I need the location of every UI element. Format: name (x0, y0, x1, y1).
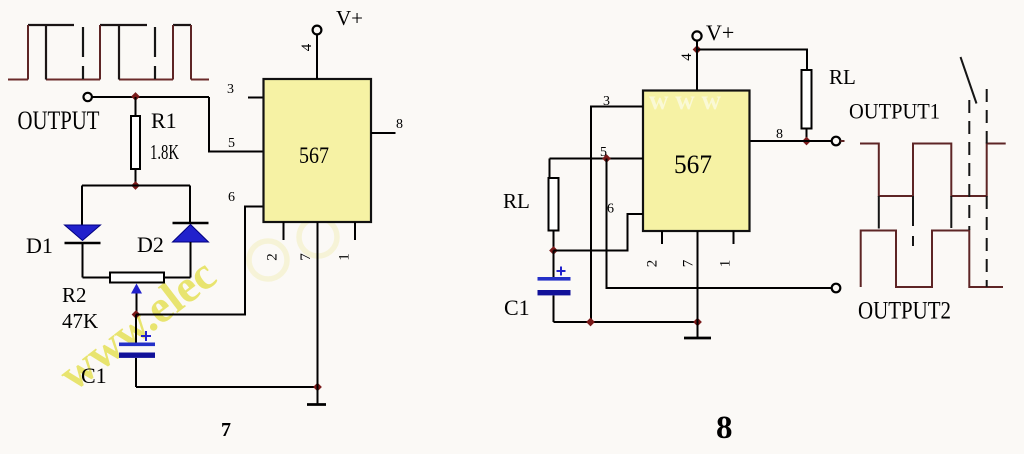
wire jog to pin 5 (209, 97, 263, 152)
capacitor C1 right (553, 251, 555, 278)
watermark www.elec diagonal (49, 248, 225, 400)
pin 2 stub (661, 231, 663, 244)
svg-text:1: 1 (337, 253, 353, 261)
pin 7 wire to ground (317, 222, 319, 387)
wire across diode tops (82, 185, 190, 187)
pin 2 stub (283, 222, 285, 240)
svg-text:OUTPUT2: OUTPUT2 (858, 298, 951, 325)
wire C1 to ground (136, 386, 318, 388)
node junction at ground (693, 318, 702, 327)
phase marker below OUT1 fall (878, 196, 880, 229)
pin 3 wire (591, 107, 643, 323)
svg-text:2: 2 (265, 253, 281, 261)
diode D1 (81, 186, 83, 226)
ground right (697, 322, 699, 338)
wire V+ to pin 4 (316, 35, 318, 80)
R2 wiper arrow (131, 284, 142, 294)
V+ terminal right (692, 31, 701, 40)
svg-text:3: 3 (603, 94, 610, 109)
waveform solid falling edges (46, 25, 119, 80)
svg-text:V+: V+ (706, 20, 734, 45)
node junction RL bottom (802, 137, 811, 146)
wire to OUTPUT1 terminal (807, 140, 832, 142)
pin 5 wire (550, 158, 644, 160)
pin 6 wire (554, 214, 644, 251)
ground (317, 387, 319, 405)
svg-text:7: 7 (298, 253, 314, 261)
node junction at R1 top (131, 92, 140, 101)
input waveform top segments (28, 24, 191, 26)
V+ terminal left (313, 26, 322, 35)
svg-text:2: 2 (645, 260, 661, 268)
node junction pin 5 (602, 154, 611, 163)
long dashed marker line 1 (968, 100, 970, 230)
svg-text:7: 7 (681, 259, 697, 267)
node junction at ground (313, 383, 322, 392)
node junction at wiper (132, 310, 141, 319)
svg-text:6: 6 (228, 190, 235, 205)
waveform rising edges (28, 25, 173, 80)
node junction RL-left bottom (549, 246, 558, 255)
op IC U1 567 (264, 79, 372, 222)
svg-text:5: 5 (228, 136, 235, 151)
pin 7 wire (697, 231, 699, 322)
OUTPUT2 waveform (861, 231, 1003, 288)
phase marker dashes below OUT1 rise (912, 196, 914, 246)
svg-text:8: 8 (776, 127, 783, 142)
wire C1 to ground node (554, 321, 698, 323)
svg-text:7: 7 (221, 419, 231, 441)
waveform last falling edge (190, 25, 192, 80)
svg-text:C1: C1 (81, 363, 107, 388)
svg-text:RL: RL (829, 65, 856, 89)
potentiometer R2 body (110, 273, 164, 283)
OUTPUT1 waveform (860, 144, 1006, 197)
capacitor C1 (135, 315, 137, 343)
OUTPUT1 terminal circle (832, 137, 841, 146)
svg-text:w w w: w w w (649, 85, 721, 115)
pin 8 stub (371, 132, 396, 134)
op IC U2 567 (643, 91, 750, 232)
svg-text:R1: R1 (151, 108, 177, 133)
phase marker below OUT1 second fall (950, 196, 952, 228)
svg-text:4: 4 (679, 53, 695, 61)
svg-text:567: 567 (299, 143, 329, 168)
pin 3 stub (248, 97, 264, 99)
pin 1 stub (733, 231, 735, 244)
wire V+ to RL (697, 50, 807, 71)
wires to potentiometer (83, 277, 191, 279)
pin 1 stub (354, 222, 356, 240)
svg-text:OUTPUT1: OUTPUT1 (849, 99, 940, 124)
svg-text:C1: C1 (504, 295, 530, 320)
input waveform baseline segments (8, 79, 209, 81)
OUTPUT2 terminal circle (832, 284, 841, 293)
resistor R1 (135, 97, 137, 116)
svg-text:OUTPUT: OUTPUT (18, 106, 100, 135)
waveform dashed edges (83, 27, 155, 79)
node junction at R1 bottom (131, 181, 140, 190)
node junction pin3 wire bottom (586, 318, 595, 327)
svg-text:4: 4 (299, 43, 315, 51)
svg-text:D1: D1 (26, 233, 53, 258)
wire V+ down to pin 4 (696, 41, 698, 91)
diode D2 (189, 186, 191, 224)
resistor RL right (802, 70, 812, 129)
svg-text:6: 6 (607, 202, 614, 217)
svg-text:5: 5 (600, 145, 607, 160)
svg-text:567: 567 (674, 150, 712, 179)
long dashed marker line 2 (986, 89, 988, 287)
svg-text:V+: V+ (336, 6, 363, 30)
svg-text:8: 8 (396, 117, 403, 132)
switch diagonal stroke (961, 57, 977, 104)
watermark faint rings (249, 218, 337, 279)
node junction below V+ (693, 45, 702, 54)
svg-text:R2: R2 (62, 283, 87, 307)
wire pin5 to OUTPUT2 (607, 159, 832, 289)
resistor RL left (549, 159, 551, 179)
wire output to R1 top (92, 96, 209, 98)
OUTPUT terminal circle (84, 93, 92, 101)
wire wiper to pin 6 (136, 207, 264, 315)
svg-text:RL: RL (503, 189, 530, 213)
svg-text:D2: D2 (137, 232, 164, 257)
svg-text:3: 3 (227, 82, 234, 97)
svg-text:47K: 47K (62, 309, 98, 333)
svg-text:8: 8 (716, 410, 733, 446)
pin 8 stub right (750, 140, 807, 142)
svg-text:1: 1 (718, 260, 734, 268)
svg-text:1.8K: 1.8K (150, 140, 179, 164)
